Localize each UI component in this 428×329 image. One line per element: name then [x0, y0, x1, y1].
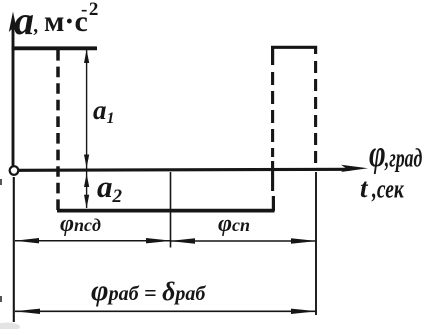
pulse top segment left (solid): [12, 46, 98, 50]
svg-text:,град: ,град: [384, 143, 422, 172]
right pulse top (solid with corner stubs): [273, 47, 316, 65]
left extension line below origin: [13, 177, 15, 322]
dimension line phi_psd: [15, 240, 170, 242]
origin circle: [10, 166, 19, 175]
arrow left: [169, 238, 195, 243]
svg-text:φпсд: φпсд: [60, 211, 101, 237]
svg-text:,сек: ,сек: [371, 175, 405, 203]
vertical axis a: [12, 27, 15, 166]
a1 arrow up: [84, 50, 89, 64]
a2 arrow up: [84, 174, 89, 188]
right pulse right dashed edge: [314, 61, 317, 170]
horizontal axis arrowhead: [341, 165, 368, 172]
dimension line phi_rab: [15, 310, 316, 312]
right pulse left dashed edge: [271, 72, 274, 191]
horizontal axis phi: [19, 169, 350, 170]
right extension line: [315, 172, 317, 315]
a1 arrow down: [84, 155, 89, 169]
svg-text:-2: -2: [81, 0, 100, 20]
dimension line phi_sp: [171, 240, 315, 242]
U right corner up: [272, 196, 275, 211]
a dimension line: [86, 50, 88, 208]
arrow right: [291, 309, 317, 314]
arrow left: [15, 238, 39, 243]
arrow left: [14, 309, 40, 314]
dashed vertical left pulse edge: [56, 50, 60, 210]
arrow right: [291, 238, 317, 243]
scan smudge bottom left: [0, 323, 20, 329]
vertical axis arrowhead: [9, 12, 17, 33]
U bottom line: [57, 209, 275, 213]
scan speck left edge 2: [0, 296, 2, 302]
a2 arrow down: [84, 195, 89, 209]
arrow right: [146, 238, 172, 243]
middle divider line: [170, 172, 172, 248]
svg-text:φ: φ: [369, 133, 386, 175]
svg-text:φсп: φсп: [218, 211, 250, 237]
scan speck left edge 1: [0, 179, 2, 185]
